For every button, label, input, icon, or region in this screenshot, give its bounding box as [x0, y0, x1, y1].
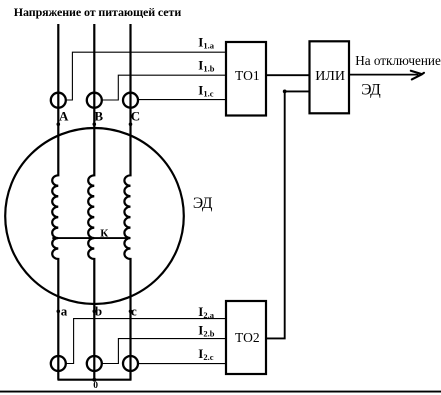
neutral bus 0: [58, 379, 132, 381]
output wire На отключение: [349, 74, 419, 76]
wire phase C with stator winding: [124, 24, 130, 380]
wire phase A with stator winding: [52, 24, 58, 380]
svg-text:На отключение: На отключение: [355, 53, 441, 68]
svg-text:B: B: [94, 109, 103, 124]
junction dot: [283, 90, 287, 94]
svg-text:ЭД: ЭД: [193, 195, 213, 212]
svg-text:ИЛИ: ИЛИ: [315, 69, 345, 84]
current transformer TA1.b: [87, 93, 102, 108]
wire tap I1.a: [66, 52, 226, 100]
wire tap I1.b: [102, 75, 226, 100]
svg-text:A: A: [59, 109, 69, 124]
wire phase B with stator winding: [88, 24, 94, 380]
block TO1: [226, 42, 266, 116]
node b dot: [93, 310, 97, 314]
node c dot: [129, 310, 133, 314]
wire TO1 to ИЛИ: [266, 74, 310, 76]
svg-text:C: C: [131, 109, 140, 124]
svg-text:ЭД: ЭД: [361, 82, 381, 99]
svg-text:0: 0: [93, 381, 98, 391]
current transformer TA2.a: [51, 356, 66, 371]
svg-text:К: К: [100, 228, 108, 240]
block ИЛИ (OR): [310, 41, 350, 113]
current transformer TA1.a: [51, 93, 66, 108]
wire tap I2.a: [66, 319, 226, 364]
arrowhead: [411, 71, 424, 80]
current transformer TA1.c: [123, 93, 138, 108]
svg-text:c: c: [131, 303, 137, 318]
svg-text:ТО2: ТО2: [235, 330, 260, 345]
junction dot on bus: [92, 378, 96, 382]
wire tap I1.c: [138, 99, 226, 101]
wire tap I2.b: [102, 339, 226, 364]
current transformer TA2.c: [123, 356, 138, 371]
block TO2: [226, 301, 266, 374]
node C dot: [129, 122, 133, 126]
svg-text:a: a: [61, 303, 68, 318]
svg-text:ТО1: ТО1: [235, 68, 260, 83]
node A dot: [57, 122, 61, 126]
svg-text:Напряжение от питающей сети: Напряжение от питающей сети: [14, 5, 182, 19]
node a dot: [57, 310, 61, 314]
motor ЭД circle: [5, 128, 184, 304]
svg-text:b: b: [95, 303, 102, 318]
bottom horizontal rule: [0, 391, 441, 393]
wire tap I2.c: [138, 363, 226, 365]
neutral point line K: [52, 237, 130, 239]
wire TO2 to ИЛИ: [266, 91, 310, 338]
node B dot: [93, 122, 97, 126]
current transformer TA2.b: [87, 356, 102, 371]
